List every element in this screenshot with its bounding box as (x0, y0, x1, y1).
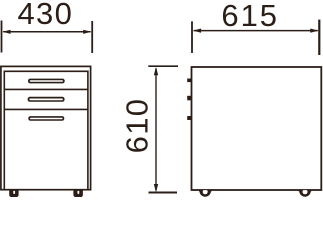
dimension 430 extension line left (1, 21, 3, 53)
side view: right caster mounting plate (299, 190, 312, 192)
dimension 615 line with arrows (193, 29, 319, 33)
side view: left caster wheel (199, 185, 211, 197)
dimension 430 extension line right (91, 21, 93, 53)
side view: left caster mounting plate (199, 190, 212, 192)
dimension 610 top reference tick (148, 65, 178, 67)
svg-text:430: 430 (17, 0, 73, 31)
dimension 615 extension line right (318, 20, 320, 55)
svg-text:615: 615 (221, 0, 279, 33)
front view: divider between drawer 2 and drawer 3 (4, 108, 88, 110)
dimension 610 vertical line with arrows (154, 67, 158, 192)
side view: handle tab of drawer 1 (187, 79, 192, 83)
side view: handle tab of drawer 2 (187, 96, 192, 101)
front view: handle of drawer 1 (28, 79, 65, 84)
dimension 430 line with arrows (2, 30, 91, 34)
side view: handle tab of drawer 3 (187, 116, 192, 120)
svg-text:610: 610 (120, 98, 155, 154)
front view: handle of drawer 2 (28, 97, 65, 102)
dimension 615 extension line left (191, 21, 193, 53)
front view: drawer-front inner outline (4, 71, 88, 189)
side view: right caster wheel (299, 185, 311, 197)
front view: outer carcass rectangle (1, 66, 91, 189)
dimension 610 bottom reference tick (149, 192, 178, 194)
front view: left caster (9, 190, 18, 197)
front view: right caster (73, 190, 83, 197)
front view: divider between drawer 1 and drawer 2 (4, 88, 88, 90)
side view: body rectangle (192, 67, 322, 190)
front view: handle of drawer 3 (28, 116, 64, 121)
